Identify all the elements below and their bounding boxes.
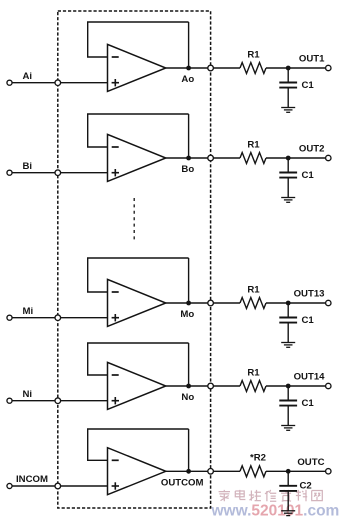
junction dot at OUTCOM output bbox=[186, 469, 191, 474]
svg-text:C1: C1 bbox=[302, 80, 315, 91]
feedback wire U4 bbox=[88, 343, 189, 386]
continuation ellipsis dashed line bbox=[133, 198, 135, 241]
svg-text:OUT2: OUT2 bbox=[299, 144, 325, 155]
capacitor C2 bbox=[279, 471, 297, 511]
output terminal OUT2 bbox=[326, 155, 331, 160]
op-amp U4 bbox=[108, 362, 166, 409]
output terminal OUT14 bbox=[326, 383, 331, 388]
feedback wire U2 bbox=[88, 114, 189, 158]
node Bi input wire bbox=[12, 172, 107, 174]
wire junction to OUT2 terminal bbox=[288, 157, 325, 159]
wire boundary to resistor bbox=[213, 157, 240, 159]
svg-text:OUTC: OUTC bbox=[297, 457, 324, 468]
wire boundary to resistor bbox=[213, 302, 240, 304]
svg-text:Mo: Mo bbox=[180, 309, 194, 320]
resistor R1 bbox=[240, 381, 266, 392]
junction dot at No output bbox=[186, 384, 191, 389]
watermark url line 2 bbox=[211, 502, 340, 518]
junction dot at OUT13 filter bbox=[286, 301, 291, 306]
output wire Mo to boundary bbox=[166, 302, 211, 304]
boundary node on right dashed border (Mo) bbox=[208, 300, 214, 306]
svg-text:www.520101.com: www.520101.com bbox=[211, 502, 340, 518]
capacitor C1 bbox=[279, 158, 297, 198]
output wire No to boundary bbox=[166, 385, 211, 387]
svg-text:Ni: Ni bbox=[23, 389, 33, 400]
ground (OUT2 filter) bbox=[281, 198, 295, 203]
boundary node on left dashed border (INCOM) bbox=[55, 483, 61, 489]
ground (OUT14 filter) bbox=[281, 426, 295, 431]
wire boundary to resistor bbox=[213, 67, 240, 69]
ground (OUTC filter) bbox=[281, 511, 295, 516]
input terminal Mi bbox=[7, 315, 12, 320]
svg-text:*R2: *R2 bbox=[250, 453, 266, 464]
op-amp U1 bbox=[108, 44, 166, 91]
wire junction to OUT14 terminal bbox=[288, 385, 325, 387]
boundary node on right dashed border (Ao) bbox=[208, 65, 214, 71]
svg-text:C1: C1 bbox=[302, 398, 315, 409]
node Mi input wire bbox=[12, 317, 107, 319]
input terminal Ai bbox=[7, 80, 12, 85]
svg-text:OUT13: OUT13 bbox=[294, 289, 325, 300]
resistor R2 bbox=[240, 466, 266, 477]
junction dot at OUT1 filter bbox=[286, 66, 291, 71]
feedback wire U3 bbox=[88, 258, 189, 303]
svg-text:Mi: Mi bbox=[23, 306, 34, 317]
svg-text:C2: C2 bbox=[300, 481, 312, 492]
svg-text:Ao: Ao bbox=[181, 74, 194, 85]
ground (OUT1 filter) bbox=[281, 108, 295, 113]
svg-text:R1: R1 bbox=[247, 139, 260, 150]
node Ni input wire bbox=[12, 400, 107, 402]
output wire OUTCOM to boundary bbox=[166, 470, 211, 472]
boundary node on left dashed border (Bi) bbox=[55, 170, 61, 176]
svg-text:R1: R1 bbox=[247, 284, 260, 295]
wire boundary to resistor bbox=[213, 385, 240, 387]
boundary node on left dashed border (Ai) bbox=[55, 80, 61, 86]
svg-text:OUT14: OUT14 bbox=[294, 372, 326, 383]
op-amp U3 bbox=[108, 279, 166, 326]
svg-text:OUT1: OUT1 bbox=[299, 54, 325, 65]
input terminal INCOM bbox=[7, 483, 12, 488]
boundary node on right dashed border (No) bbox=[208, 383, 214, 389]
input terminal Ni bbox=[7, 398, 12, 403]
output wire Ao to boundary bbox=[166, 67, 211, 69]
svg-text:Ai: Ai bbox=[23, 71, 33, 82]
wire junction to OUT1 terminal bbox=[288, 67, 325, 69]
wire junction to OUTC terminal bbox=[288, 470, 325, 472]
resistor R1 bbox=[240, 298, 266, 309]
wire resistor to junction bbox=[266, 470, 288, 472]
capacitor C1 bbox=[279, 303, 297, 343]
capacitor C1 bbox=[279, 386, 297, 426]
boundary node on right dashed border (Bo) bbox=[208, 155, 214, 161]
node INCOM input wire bbox=[12, 485, 107, 487]
output wire Bo to boundary bbox=[166, 157, 211, 159]
svg-text:R1: R1 bbox=[247, 367, 260, 378]
wire resistor to junction bbox=[266, 157, 288, 159]
dashed module boundary box bbox=[58, 11, 211, 508]
output terminal OUTC bbox=[326, 469, 331, 474]
boundary node on left dashed border (Ni) bbox=[55, 398, 61, 404]
op-amp U5 bbox=[108, 448, 166, 495]
resistor R1 bbox=[240, 153, 266, 164]
svg-text:Bo: Bo bbox=[181, 164, 194, 175]
output terminal OUT1 bbox=[326, 65, 331, 70]
op-amp U2 bbox=[108, 134, 166, 181]
svg-text:C1: C1 bbox=[302, 315, 315, 326]
junction dot at OUT14 filter bbox=[286, 384, 291, 389]
svg-text:Bi: Bi bbox=[23, 161, 33, 172]
node Ai input wire bbox=[12, 82, 107, 84]
wire resistor to junction bbox=[266, 385, 288, 387]
capacitor C1 bbox=[279, 68, 297, 108]
output terminal OUT13 bbox=[326, 300, 331, 305]
boundary node on right dashed border (OUTCOM) bbox=[208, 469, 214, 475]
svg-text:R1: R1 bbox=[247, 49, 260, 60]
feedback wire U5 bbox=[88, 429, 189, 471]
input terminal Bi bbox=[7, 170, 12, 175]
resistor R1 bbox=[240, 63, 266, 74]
junction dot at Bo output bbox=[186, 156, 191, 161]
wire boundary to resistor bbox=[213, 470, 240, 472]
watermark text line 1 (CJK pseudo-glyphs) bbox=[219, 490, 323, 501]
svg-text:No: No bbox=[181, 392, 194, 403]
junction dot at OUTC filter bbox=[286, 469, 291, 474]
junction dot at OUT2 filter bbox=[286, 156, 291, 161]
ground (OUT13 filter) bbox=[281, 343, 295, 348]
feedback wire U1 bbox=[88, 22, 189, 68]
wire resistor to junction bbox=[266, 67, 288, 69]
wire junction to OUT13 terminal bbox=[288, 302, 325, 304]
svg-text:INCOM: INCOM bbox=[16, 474, 48, 485]
wire resistor to junction bbox=[266, 302, 288, 304]
junction dot at Ao output bbox=[186, 66, 191, 71]
boundary node on left dashed border (Mi) bbox=[55, 315, 61, 321]
svg-text:C1: C1 bbox=[302, 170, 315, 181]
junction dot at Mo output bbox=[186, 301, 191, 306]
svg-text:OUTCOM: OUTCOM bbox=[161, 478, 204, 489]
